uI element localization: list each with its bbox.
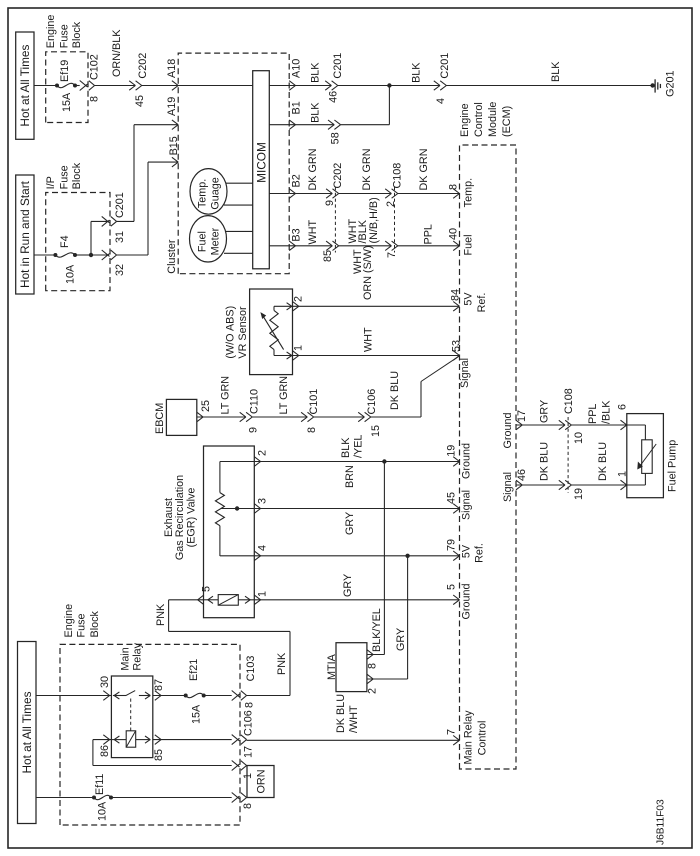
svg-text:Cluster: Cluster [166, 239, 178, 274]
svg-text:17: 17 [516, 410, 528, 422]
svg-text:GRY: GRY [342, 574, 354, 597]
svg-text:A18: A18 [166, 59, 178, 78]
svg-text:J6B11F03: J6B11F03 [656, 799, 667, 845]
svg-text:MICOM: MICOM [254, 142, 268, 183]
svg-text:Hot in Run and Start: Hot in Run and Start [18, 180, 32, 288]
svg-text:C108: C108 [563, 388, 575, 414]
svg-text:86: 86 [99, 745, 111, 757]
svg-text:Block: Block [89, 610, 101, 637]
svg-text:LT GRN: LT GRN [220, 376, 232, 415]
svg-text:Ef19: Ef19 [59, 60, 71, 82]
svg-text:WHT: WHT [307, 220, 319, 245]
svg-text:Fuse: Fuse [58, 24, 70, 48]
svg-text:Module: Module [487, 102, 499, 137]
svg-text:15: 15 [370, 425, 382, 437]
svg-text:(W/O ABS): (W/O ABS) [224, 306, 236, 359]
svg-text:Block: Block [71, 162, 83, 189]
svg-text:DK BLU: DK BLU [335, 694, 347, 733]
svg-text:DK GRN: DK GRN [418, 149, 430, 191]
svg-text:Relay: Relay [131, 642, 143, 670]
svg-text:53: 53 [451, 340, 463, 352]
svg-text:Signal: Signal [459, 358, 471, 388]
svg-text:PPL: PPL [587, 404, 599, 424]
svg-text:A10: A10 [290, 59, 302, 78]
svg-text:ORN (S/W): ORN (S/W) [362, 245, 374, 300]
svg-text:/WHT: /WHT [348, 705, 360, 733]
svg-text:6: 6 [617, 404, 629, 410]
svg-text:PNK: PNK [276, 652, 288, 675]
svg-text:C101: C101 [308, 389, 320, 415]
svg-text:GRY: GRY [539, 400, 551, 423]
svg-text:C202: C202 [332, 163, 344, 189]
svg-text:Engine: Engine [63, 604, 75, 638]
svg-text:Ground: Ground [460, 583, 472, 619]
svg-text:Hot at All Times: Hot at All Times [18, 45, 32, 127]
svg-text:C103: C103 [245, 656, 257, 682]
svg-text:84: 84 [449, 289, 461, 301]
svg-text:5V: 5V [460, 544, 472, 558]
svg-text:Main Relay: Main Relay [462, 710, 474, 765]
svg-text:1: 1 [257, 591, 269, 597]
svg-text:2: 2 [293, 296, 305, 302]
svg-text:1: 1 [617, 471, 629, 477]
svg-text:PNK: PNK [155, 603, 167, 626]
svg-text:F4: F4 [59, 235, 71, 248]
svg-text:Block: Block [71, 21, 83, 48]
svg-text:7: 7 [386, 252, 398, 258]
svg-text:19: 19 [573, 488, 585, 500]
svg-text:5V: 5V [462, 292, 474, 306]
svg-text:8: 8 [366, 663, 378, 669]
svg-text:A19: A19 [166, 97, 178, 116]
svg-text:Fuel Pump: Fuel Pump [666, 440, 678, 492]
svg-text:Control: Control [476, 721, 488, 756]
svg-text:BLK: BLK [411, 62, 423, 83]
svg-text:GRY: GRY [395, 628, 407, 651]
svg-text:9: 9 [247, 427, 259, 433]
svg-text:Meter: Meter [209, 227, 221, 255]
svg-text:45: 45 [446, 492, 458, 504]
svg-text:C108: C108 [391, 163, 403, 189]
svg-text:Engine: Engine [459, 103, 471, 137]
svg-text:32: 32 [114, 264, 126, 276]
svg-text:Ef11: Ef11 [94, 774, 106, 795]
svg-text:C201: C201 [332, 53, 344, 79]
svg-text:79: 79 [446, 539, 458, 551]
svg-text:2: 2 [366, 688, 378, 694]
svg-text:BLK: BLK [310, 62, 322, 83]
svg-text:46: 46 [516, 469, 528, 481]
svg-text:DK GRN: DK GRN [361, 149, 373, 191]
svg-text:(ECM): (ECM) [501, 106, 513, 137]
svg-text:10: 10 [573, 432, 585, 444]
svg-text:(EGR) Valve: (EGR) Valve [185, 488, 197, 548]
svg-text:DK GRN: DK GRN [307, 149, 319, 191]
svg-text:4: 4 [435, 98, 447, 104]
svg-text:I/P: I/P [45, 176, 57, 189]
svg-text:87: 87 [153, 679, 165, 691]
svg-text:Hot at All Times: Hot at All Times [20, 691, 34, 773]
svg-text:MTIA: MTIA [326, 653, 338, 680]
svg-text:Fuel: Fuel [196, 231, 208, 252]
svg-text:(N/B,H/B): (N/B,H/B) [368, 197, 380, 243]
svg-text:4: 4 [257, 545, 269, 551]
svg-text:Fuel: Fuel [462, 234, 474, 255]
svg-text:1: 1 [293, 345, 305, 351]
svg-text:17: 17 [243, 746, 255, 758]
svg-text:Ground: Ground [502, 412, 514, 448]
svg-text:ORN/BLK: ORN/BLK [111, 29, 123, 77]
svg-text:B3: B3 [290, 228, 302, 241]
svg-text:Engine: Engine [45, 15, 57, 49]
svg-text:85: 85 [322, 250, 334, 262]
svg-text:WHT: WHT [363, 327, 375, 352]
svg-text:8: 8 [448, 184, 460, 190]
svg-text:2: 2 [385, 201, 397, 207]
svg-text:B1: B1 [290, 101, 302, 114]
svg-text:Ground: Ground [460, 443, 472, 479]
svg-text:8: 8 [243, 702, 255, 708]
svg-text:1: 1 [242, 773, 254, 779]
svg-text:Temp.: Temp. [196, 179, 208, 208]
svg-text:BLK/YEL: BLK/YEL [371, 608, 383, 652]
svg-text:8: 8 [306, 427, 318, 433]
svg-text:2: 2 [257, 450, 269, 456]
svg-text:/BLK: /BLK [600, 400, 612, 424]
svg-text:DK BLU: DK BLU [597, 442, 609, 481]
svg-text:40: 40 [448, 228, 460, 240]
svg-text:B2: B2 [290, 174, 302, 187]
svg-text:ORN: ORN [255, 770, 267, 794]
svg-text:EBCM: EBCM [154, 403, 166, 434]
svg-text:Ref.: Ref. [476, 293, 488, 313]
svg-text:25: 25 [200, 400, 212, 412]
svg-text:85: 85 [153, 749, 165, 761]
svg-text:8: 8 [242, 803, 254, 809]
svg-text:9: 9 [324, 200, 336, 206]
svg-text:3: 3 [257, 498, 269, 504]
svg-text:C201: C201 [439, 53, 451, 79]
svg-text:Fuse: Fuse [58, 165, 70, 189]
svg-text:C110: C110 [249, 389, 261, 414]
svg-text:C106: C106 [366, 389, 378, 415]
svg-text:B15: B15 [168, 136, 180, 155]
svg-text:45: 45 [134, 95, 146, 107]
svg-text:C106: C106 [242, 710, 254, 736]
svg-text:7: 7 [446, 729, 458, 735]
svg-text:Control: Control [473, 102, 485, 137]
svg-text:58: 58 [330, 132, 342, 144]
svg-text:46: 46 [328, 91, 340, 103]
svg-text:Signal: Signal [502, 472, 514, 502]
svg-text:8: 8 [88, 96, 100, 102]
svg-text:C202: C202 [137, 53, 149, 79]
svg-text:15A: 15A [191, 704, 203, 724]
svg-text:BLK: BLK [550, 61, 562, 82]
svg-text:C102: C102 [88, 54, 100, 80]
svg-text:Ref.: Ref. [473, 543, 485, 563]
svg-text:Fuse: Fuse [76, 613, 88, 637]
svg-text:PPL: PPL [422, 224, 434, 244]
svg-text:BLK: BLK [340, 437, 352, 458]
svg-text:Signal: Signal [460, 490, 472, 520]
svg-text:LT GRN: LT GRN [278, 376, 290, 415]
svg-text:VR Sensor: VR Sensor [237, 306, 249, 359]
svg-text:19: 19 [446, 445, 458, 457]
svg-text:/YEL: /YEL [352, 435, 364, 458]
svg-text:10A: 10A [64, 264, 76, 284]
svg-text:Main: Main [120, 647, 132, 670]
svg-text:10A: 10A [97, 801, 109, 821]
svg-text:5: 5 [201, 586, 213, 592]
svg-text:DK BLU: DK BLU [539, 442, 551, 481]
svg-text:G201: G201 [664, 70, 676, 96]
svg-text:31: 31 [114, 231, 126, 243]
svg-text:Ef21: Ef21 [188, 659, 200, 681]
svg-text:BLK: BLK [310, 102, 322, 123]
svg-text:15A: 15A [61, 92, 73, 112]
svg-text:GRY: GRY [344, 512, 356, 535]
svg-text:BRN: BRN [344, 465, 356, 488]
svg-text:C201: C201 [114, 192, 126, 218]
svg-text:5: 5 [446, 584, 458, 590]
svg-text:30: 30 [99, 676, 111, 688]
svg-text:DK BLU: DK BLU [389, 371, 401, 410]
svg-text:Guage: Guage [209, 177, 221, 209]
svg-text:Temp.: Temp. [462, 178, 474, 207]
